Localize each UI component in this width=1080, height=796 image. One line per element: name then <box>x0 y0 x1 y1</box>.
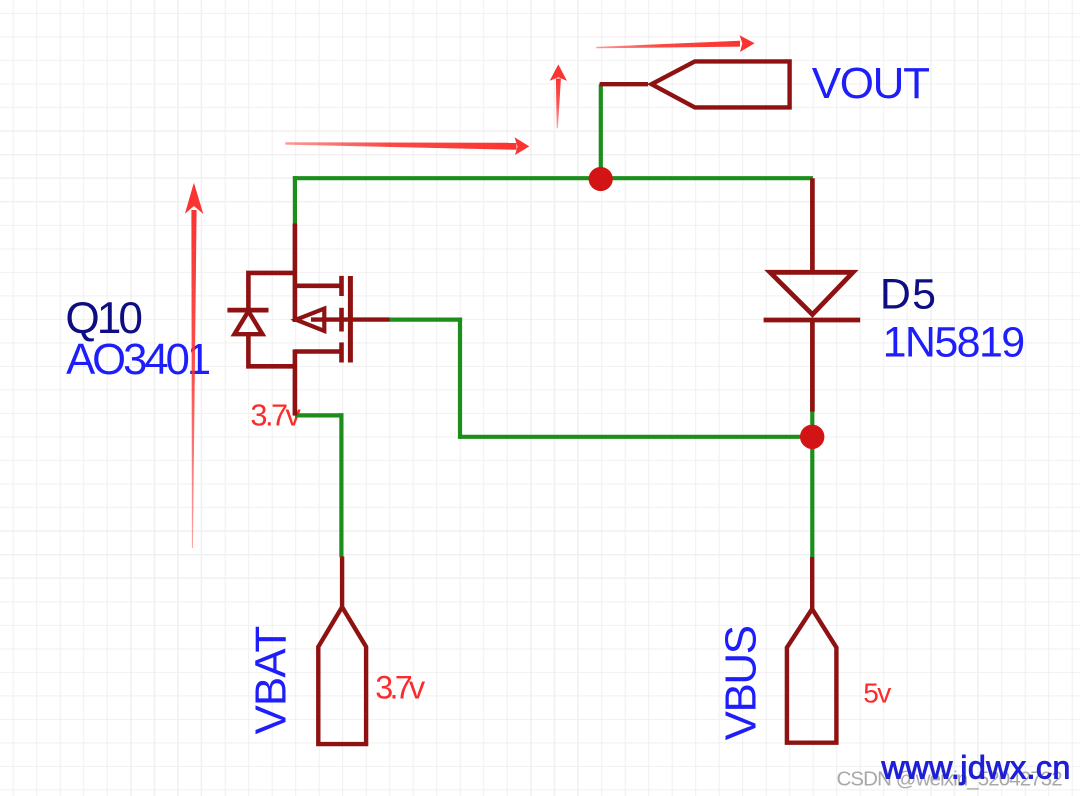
svg-text:VOUT: VOUT <box>812 59 929 108</box>
diode D5 cathode bar <box>764 318 861 323</box>
junction dot at VOUT net <box>589 167 613 191</box>
diode D5 top pin <box>810 178 815 272</box>
transistor Q10 drain pin <box>293 224 298 323</box>
annotation arrow top right <box>596 35 754 52</box>
svg-text:www.jdwx.cn: www.jdwx.cn <box>881 750 1071 786</box>
wire gate vertical <box>458 318 462 439</box>
transistor Q10 body diode loop bottom <box>248 333 295 366</box>
svg-text:VBAT: VBAT <box>247 627 296 735</box>
port VBAT pentagon <box>318 607 366 744</box>
annotation arrow long vertical <box>185 183 203 548</box>
transistor Q10 source lead <box>295 349 342 354</box>
junction dot at VBUS net <box>800 425 824 449</box>
transistor Q10 gate pin <box>311 317 390 321</box>
port VOUT flag <box>652 61 790 107</box>
wire source horizontal <box>295 413 344 417</box>
wire gate horizontal <box>389 318 462 322</box>
transistor Q10 body diode triangle <box>234 311 262 334</box>
port VBUS pentagon <box>787 609 837 743</box>
wire VOUT port vertical <box>599 84 603 178</box>
wire top horizontal net VOUT <box>293 176 813 180</box>
transistor Q10 gate bar <box>348 276 353 363</box>
port VBUS pin <box>810 557 814 610</box>
transistor Q10 body arrow <box>296 309 324 331</box>
svg-text:D5: D5 <box>880 271 937 319</box>
svg-text:1N5819: 1N5819 <box>883 319 1024 367</box>
diode D5 bottom pin <box>810 320 815 412</box>
svg-text:VBUS: VBUS <box>717 626 766 740</box>
port VBAT pin <box>340 557 344 610</box>
transistor Q10 channel dash top <box>339 276 344 296</box>
transistor Q10 body diode loop top <box>248 273 295 308</box>
transistor Q10 channel dash bottom <box>339 342 344 362</box>
wire gate to junction horizontal <box>460 435 812 439</box>
wire junction to VBUS vertical <box>810 437 814 557</box>
port VOUT stub <box>600 82 648 86</box>
svg-text:3.7v: 3.7v <box>375 669 426 705</box>
svg-text:5v: 5v <box>863 677 891 708</box>
annotation arrow small vertical <box>550 64 567 128</box>
wire drain vertical green <box>293 176 297 224</box>
transistor Q10 source pin <box>293 349 298 415</box>
wire source to VBAT vertical <box>339 413 343 557</box>
transistor Q10 drain lead <box>295 283 342 288</box>
wire D5 to junction vertical <box>810 411 814 437</box>
transistor Q10 body diode cathode bar <box>227 308 268 313</box>
svg-text:AO3401: AO3401 <box>66 336 210 384</box>
transistor Q10 channel dash middle <box>339 308 344 332</box>
diode D5 triangle <box>770 272 853 314</box>
annotation arrow middle left <box>285 137 529 155</box>
